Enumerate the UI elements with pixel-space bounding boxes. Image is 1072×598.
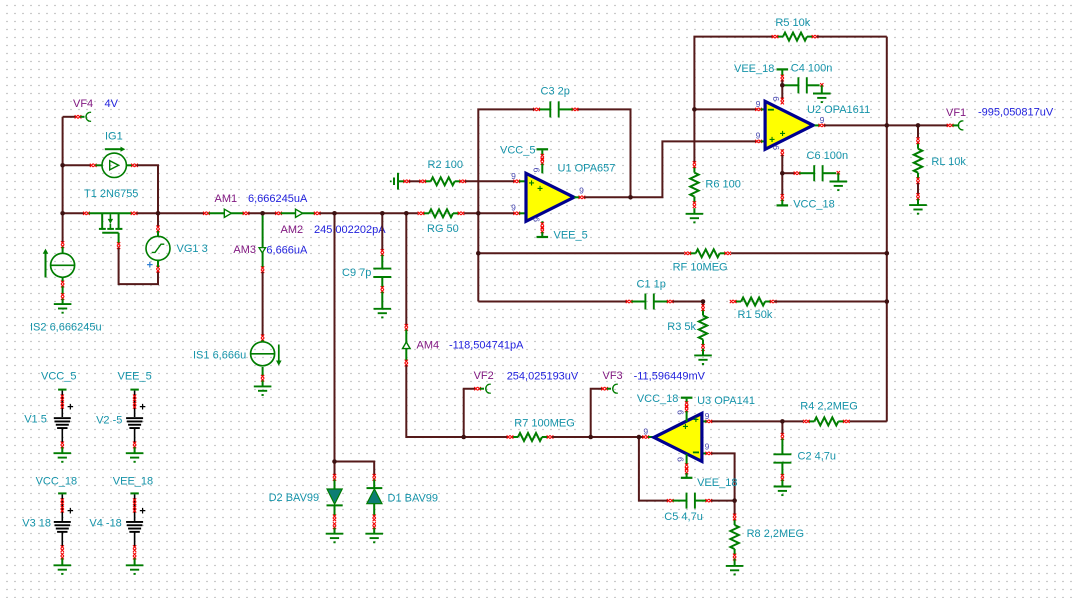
svg-text:AM3: AM3 xyxy=(233,244,256,256)
svg-text:9: 9 xyxy=(531,167,541,172)
svg-text:C1 1p: C1 1p xyxy=(637,279,666,291)
svg-text:VF4: VF4 xyxy=(73,98,93,110)
svg-text:+: + xyxy=(693,415,699,426)
svg-text:D2 BAV99: D2 BAV99 xyxy=(269,492,320,504)
svg-text:9: 9 xyxy=(756,131,761,141)
svg-text:VCC_5: VCC_5 xyxy=(41,370,76,382)
svg-text:9: 9 xyxy=(511,171,516,181)
svg-text:+: + xyxy=(537,184,543,195)
svg-text:9: 9 xyxy=(579,186,584,196)
svg-text:9: 9 xyxy=(511,203,516,213)
svg-text:C4 100n: C4 100n xyxy=(791,63,833,75)
svg-text:254,025193uV: 254,025193uV xyxy=(507,371,579,383)
svg-text:-11,596449mV: -11,596449mV xyxy=(634,371,706,383)
svg-text:IG1: IG1 xyxy=(105,130,123,142)
svg-text:C9 7p: C9 7p xyxy=(342,267,371,279)
svg-text:VG1 3: VG1 3 xyxy=(177,243,208,255)
svg-text:IS2 6,666245u: IS2 6,666245u xyxy=(30,321,102,333)
svg-text:9: 9 xyxy=(756,99,761,109)
svg-text:RG 50: RG 50 xyxy=(427,223,459,235)
svg-text:C5 4,7u: C5 4,7u xyxy=(664,511,703,523)
svg-text:AM2: AM2 xyxy=(281,224,304,236)
svg-text:R8 2,2MEG: R8 2,2MEG xyxy=(747,528,804,540)
svg-text:VCC_5: VCC_5 xyxy=(500,145,535,157)
svg-text:245,002202pA: 245,002202pA xyxy=(314,224,386,236)
svg-text:VEE_5: VEE_5 xyxy=(118,370,152,382)
svg-text:-995,050817uV: -995,050817uV xyxy=(978,107,1054,119)
svg-text:9: 9 xyxy=(676,457,686,462)
svg-text:+: + xyxy=(780,129,786,140)
svg-text:9: 9 xyxy=(705,442,710,452)
svg-text:R2 100: R2 100 xyxy=(428,159,463,171)
svg-text:RF 10MEG: RF 10MEG xyxy=(673,262,728,274)
svg-text:AM4: AM4 xyxy=(417,339,440,351)
svg-text:-118,504741pA: -118,504741pA xyxy=(449,340,524,352)
svg-text:C6 100n: C6 100n xyxy=(807,150,849,162)
svg-text:4V: 4V xyxy=(105,98,119,110)
svg-text:C2 4,7u: C2 4,7u xyxy=(798,451,837,463)
svg-text:9: 9 xyxy=(705,411,710,421)
svg-text:U3 OPA141: U3 OPA141 xyxy=(697,395,755,407)
svg-text:VEE_18: VEE_18 xyxy=(734,63,774,75)
svg-text:VF1: VF1 xyxy=(946,107,966,119)
svg-text:C3 2p: C3 2p xyxy=(541,86,570,98)
svg-text:AM1: AM1 xyxy=(215,193,238,205)
svg-text:+: + xyxy=(682,422,688,433)
svg-text:9: 9 xyxy=(643,427,648,437)
svg-text:VCC_18: VCC_18 xyxy=(36,476,78,488)
svg-text:R3 5k: R3 5k xyxy=(667,321,696,333)
svg-text:9: 9 xyxy=(771,96,781,101)
svg-text:VEE_18: VEE_18 xyxy=(113,476,153,488)
svg-text:U2 OPA1611: U2 OPA1611 xyxy=(807,104,870,116)
svg-text:9: 9 xyxy=(771,145,781,150)
svg-text:R1 50k: R1 50k xyxy=(738,309,773,321)
svg-text:VEE_18: VEE_18 xyxy=(697,477,737,489)
svg-text:+: + xyxy=(67,402,73,414)
svg-text:R6 100: R6 100 xyxy=(705,178,740,190)
svg-text:9: 9 xyxy=(531,217,541,222)
svg-text:VCC_18: VCC_18 xyxy=(637,393,679,405)
svg-text:R4 2,2MEG: R4 2,2MEG xyxy=(800,401,857,413)
svg-text:V2 -5: V2 -5 xyxy=(96,414,122,426)
svg-text:+: + xyxy=(139,505,145,517)
svg-text:+: + xyxy=(139,402,145,414)
svg-text:T1 2N6755: T1 2N6755 xyxy=(84,188,138,200)
svg-text:V3 18: V3 18 xyxy=(22,518,51,530)
svg-text:VEE_5: VEE_5 xyxy=(554,229,588,241)
svg-text:+: + xyxy=(67,505,73,517)
svg-text:IS1 6,666u: IS1 6,666u xyxy=(193,350,246,362)
svg-text:V4 -18: V4 -18 xyxy=(89,518,121,530)
svg-text:+: + xyxy=(147,260,153,272)
svg-text:+: + xyxy=(769,135,775,146)
svg-text:6,666uA: 6,666uA xyxy=(266,244,308,256)
svg-text:R7 100MEG: R7 100MEG xyxy=(514,417,575,429)
svg-text:VCC_18: VCC_18 xyxy=(793,198,835,210)
svg-text:9: 9 xyxy=(676,410,686,415)
svg-text:U1 OPA657: U1 OPA657 xyxy=(558,162,616,174)
svg-text:VF2: VF2 xyxy=(474,370,494,382)
svg-text:V1 5: V1 5 xyxy=(24,413,47,425)
svg-text:6,666245uA: 6,666245uA xyxy=(248,193,308,205)
svg-text:D1 BAV99: D1 BAV99 xyxy=(388,493,439,505)
svg-text:+: + xyxy=(529,178,535,189)
svg-text:RL 10k: RL 10k xyxy=(931,156,966,168)
svg-text:VF3: VF3 xyxy=(603,370,623,382)
svg-text:R5 10k: R5 10k xyxy=(775,17,810,29)
